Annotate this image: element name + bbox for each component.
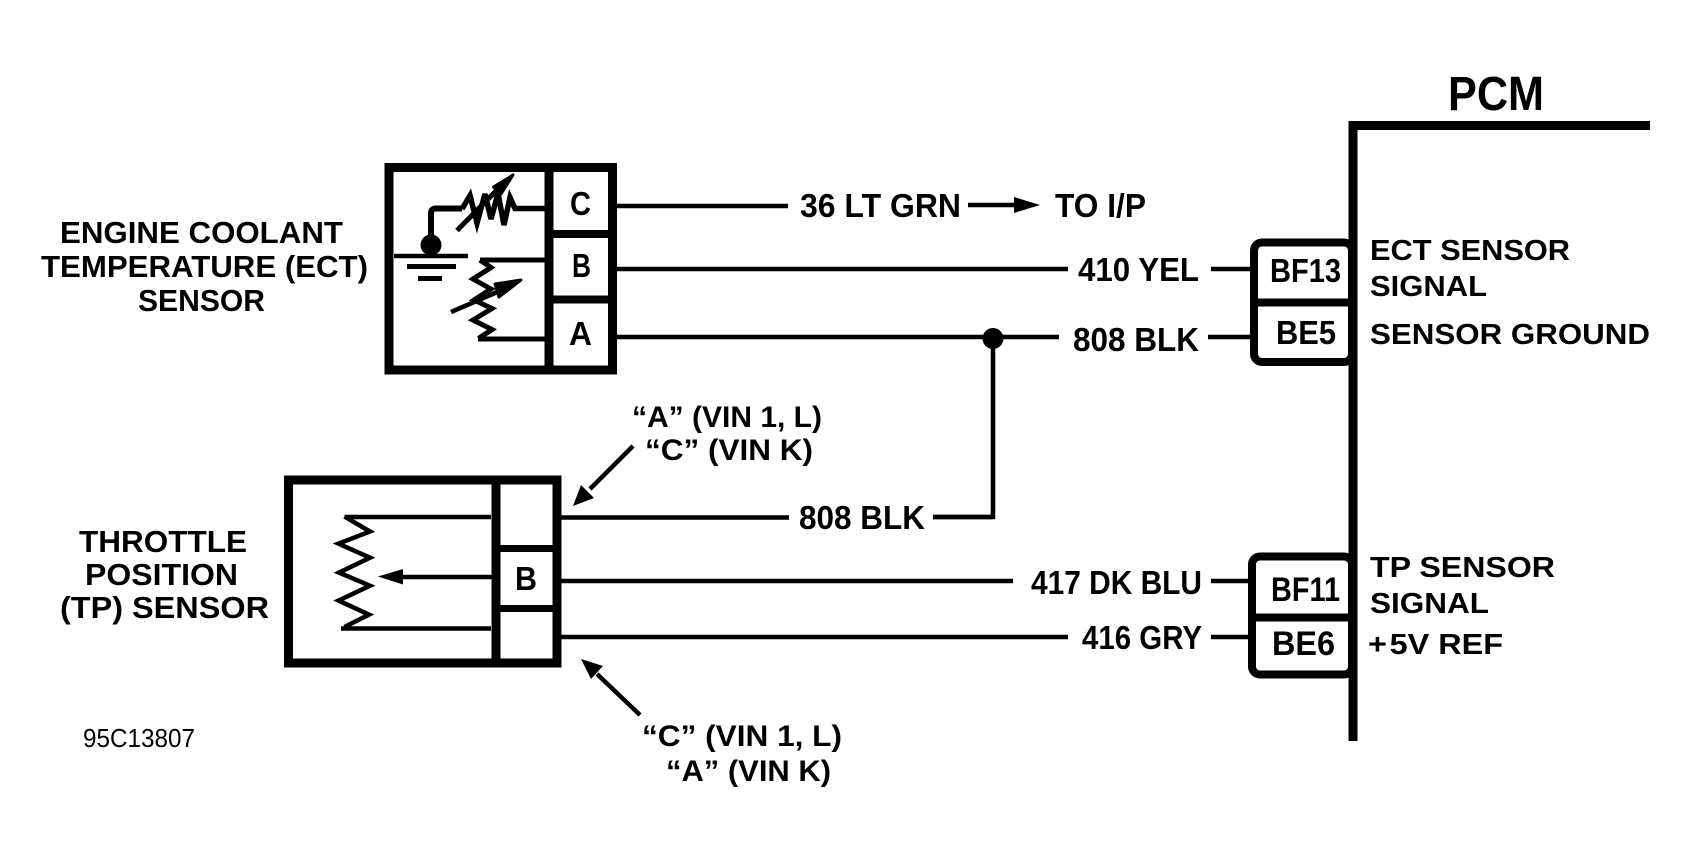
- svg-text:A: A: [569, 315, 592, 352]
- arrow to I/P: [968, 197, 1040, 213]
- PCM top edge: [1349, 121, 1650, 130]
- wire 808 BLK branch to junction: [933, 515, 993, 520]
- arrow across thermistor RT2: [451, 280, 521, 312]
- label ECT SENSOR SIGNAL: [1370, 235, 1570, 303]
- svg-text:C: C: [570, 185, 591, 222]
- svg-text:BF11: BF11: [1271, 571, 1340, 609]
- wire from thermistor to ground node: [431, 209, 462, 237]
- svg-text:TO I/P: TO I/P: [1055, 187, 1146, 224]
- svg-text:TP SENSOR: TP SENSOR: [1370, 552, 1555, 584]
- ground symbol: [394, 256, 468, 279]
- junction node: [983, 328, 1004, 349]
- svg-text:SIGNAL: SIGNAL: [1370, 271, 1487, 303]
- wire 410 YEL from pin B: [616, 267, 1068, 272]
- wire 416 GRY from TP pin C: [561, 635, 1068, 640]
- connector box BF13/BE5: [1254, 243, 1352, 363]
- svg-text:“A” (VIN 1, L): “A” (VIN 1, L): [632, 401, 822, 434]
- wire 808 BLK from pin A: [616, 335, 1059, 340]
- svg-text:+ 5V REF: + 5V REF: [1368, 629, 1503, 661]
- PCM left edge: [1349, 121, 1358, 741]
- svg-text:B: B: [515, 560, 537, 597]
- svg-text:SENSOR GROUND: SENSOR GROUND: [1370, 319, 1650, 351]
- svg-text:ECT SENSOR: ECT SENSOR: [1370, 235, 1570, 267]
- svg-text:TEMPERATURE (ECT): TEMPERATURE (ECT): [41, 249, 368, 284]
- svg-text:SIGNAL: SIGNAL: [1370, 588, 1489, 620]
- svg-text:(TP) SENSOR: (TP) SENSOR: [60, 590, 269, 625]
- svg-text:BE5: BE5: [1276, 314, 1336, 351]
- pin divider B/bottom: [496, 605, 557, 612]
- wire 808 BLK to BE5: [1208, 335, 1250, 340]
- wire 417 DK BLU from TP pin B: [561, 579, 1013, 584]
- arrow to TP pin A: [573, 446, 633, 506]
- svg-text:808 BLK: 808 BLK: [1073, 321, 1199, 358]
- wire 808 BLK from TP pin A: [561, 515, 789, 520]
- pin divider top/B: [496, 545, 557, 552]
- svg-text:410 YEL: 410 YEL: [1078, 251, 1199, 288]
- arrow to TP pin C: [581, 659, 640, 715]
- svg-text:BE6: BE6: [1272, 625, 1335, 663]
- pin divider B/A: [549, 296, 613, 304]
- svg-text:B: B: [572, 247, 591, 284]
- svg-text:808 BLK: 808 BLK: [799, 499, 925, 536]
- svg-text:“C” (VIN K): “C” (VIN K): [645, 434, 813, 467]
- label TP SENSOR SIGNAL: [1370, 552, 1555, 620]
- thermistor RT2 (variable resistor, ECT lower): [473, 260, 549, 339]
- wiper arrow (TP sensor): [378, 569, 493, 585]
- svg-text:417 DK BLU: 417 DK BLU: [1031, 564, 1202, 601]
- wire 410 YEL to BF13: [1211, 267, 1250, 272]
- svg-text:POSITION: POSITION: [85, 557, 238, 592]
- connector box BF11/BE6: [1252, 557, 1352, 675]
- ground node dot: [421, 235, 442, 256]
- svg-text:ENGINE COOLANT: ENGINE COOLANT: [60, 215, 343, 250]
- svg-text:SENSOR: SENSOR: [138, 283, 265, 318]
- ECT sensor connector box: [389, 168, 613, 371]
- svg-text:“A” (VIN K): “A” (VIN K): [666, 755, 831, 788]
- wire branch 808 BLK vertical: [933, 339, 993, 517]
- label ENGINE COOLANT TEMPERATURE (ECT) SENSOR: [41, 215, 368, 318]
- potentiometer R (TP sensor): [339, 517, 492, 629]
- wire 416 GRY to BE6: [1211, 635, 1248, 640]
- wire 417 DK BLU to BF11: [1211, 579, 1248, 584]
- pin divider C/B: [549, 230, 613, 238]
- svg-text:PCM: PCM: [1448, 68, 1544, 121]
- TP sensor connector box: [289, 480, 558, 663]
- svg-text:36 LT GRN: 36 LT GRN: [800, 187, 961, 224]
- svg-text:95C13807: 95C13807: [83, 723, 195, 753]
- svg-text:“C” (VIN 1, L): “C” (VIN 1, L): [642, 720, 842, 753]
- svg-text:416 GRY: 416 GRY: [1082, 619, 1202, 656]
- thermistor RT1 (variable resistor, ECT): [462, 194, 549, 226]
- svg-text:BF13: BF13: [1270, 252, 1341, 289]
- label THROTTLE POSITION (TP) SENSOR: [60, 524, 269, 625]
- arrow across thermistor RT1: [457, 175, 513, 231]
- wire 36 LT GRN from pin C: [616, 204, 788, 209]
- svg-text:THROTTLE: THROTTLE: [79, 524, 247, 559]
